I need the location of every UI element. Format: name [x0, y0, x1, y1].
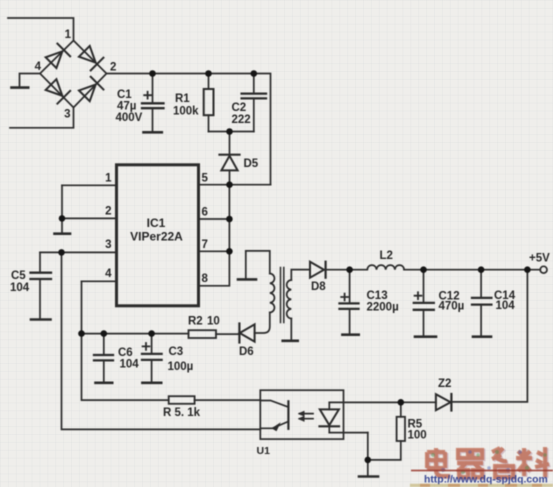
capacitor C12: [414, 270, 436, 337]
svg-text:470µ: 470µ: [439, 301, 465, 313]
diode D6: [239, 313, 269, 343]
wire pins1-2 to ground: [61, 185, 63, 233]
node C1 rail: [149, 70, 156, 77]
svg-text:3: 3: [64, 109, 70, 121]
svg-text:1: 1: [105, 173, 112, 185]
wire opto anode to R5 node: [329, 401, 401, 403]
optocoupler U1 box: [260, 390, 343, 439]
svg-text:L2: L2: [380, 250, 393, 262]
svg-text:R1: R1: [175, 93, 190, 105]
node pin6: [226, 216, 233, 223]
svg-text:1: 1: [65, 29, 72, 41]
wire main HV rail: [107, 74, 271, 185]
watermark 电器资料 (drawn strokes): [410, 447, 553, 486]
node pin5: [226, 181, 233, 188]
svg-text:C3: C3: [169, 346, 184, 358]
wire Vdd cap line: [82, 333, 189, 335]
svg-text:6: 6: [202, 207, 208, 219]
wire output down to Z2: [452, 270, 528, 402]
svg-text:8: 8: [202, 273, 209, 285]
ground G3 (primary top): [238, 278, 256, 281]
wire pin3: [40, 251, 117, 253]
svg-text:R 5. 1k: R 5. 1k: [163, 407, 201, 419]
wire pin1: [62, 184, 117, 186]
wire bridge node4 to ground: [20, 74, 41, 87]
svg-text:D6: D6: [239, 346, 254, 358]
node clamp D5 top: [226, 128, 233, 135]
svg-text:400V: 400V: [116, 112, 143, 124]
inductor L2: [350, 265, 405, 270]
wire pin4: [82, 280, 117, 282]
diode BR-d (3 to 2): [78, 77, 103, 102]
resistor R: [169, 396, 195, 404]
node pin4 Vdd: [78, 330, 85, 337]
opto phototransistor: [260, 401, 288, 431]
svg-text:222: 222: [232, 114, 251, 126]
wire pin4 down to Vdd line: [82, 281, 169, 400]
svg-text:C2: C2: [232, 102, 247, 114]
node R5 top: [398, 399, 405, 406]
svg-text:IC1: IC1: [147, 216, 166, 230]
wire feedback left rail (pin3 node down to opto emitter): [62, 252, 261, 429]
svg-text:+5V: +5V: [529, 253, 550, 265]
wire AC input top: [8, 18, 74, 41]
svg-text:D8: D8: [311, 281, 326, 293]
transformer T1 core: [281, 268, 284, 323]
ground G4 (secondary): [283, 339, 298, 342]
node R1 rail: [205, 70, 212, 77]
capacitor C2: [242, 74, 266, 132]
svg-text:4: 4: [105, 268, 112, 280]
svg-text:C6: C6: [118, 347, 133, 359]
capacitor C5: [31, 252, 52, 319]
wire opto cathode out: [329, 432, 368, 434]
svg-text:100: 100: [408, 430, 427, 442]
node +5V out: [524, 266, 531, 273]
diode BR-b (1 to 2): [78, 45, 103, 70]
svg-text:VIPer22A: VIPer22A: [130, 230, 183, 244]
wire secondary bottom: [290, 319, 292, 341]
node output terminal: [540, 266, 547, 273]
resistor R5: [368, 402, 405, 460]
capacitor C3: [142, 334, 162, 383]
svg-text:C13: C13: [367, 290, 388, 302]
capacitor C6: [94, 334, 113, 383]
opto light arrows: [298, 411, 313, 421]
wire output rail: [404, 269, 540, 271]
node C2 rail: [251, 70, 258, 77]
svg-text:D5: D5: [244, 158, 259, 170]
wire drain pin5 line: [199, 184, 271, 186]
wire clamp node (R1-C2 bottoms): [209, 131, 254, 133]
svg-text:104: 104: [10, 282, 30, 294]
svg-text:C1: C1: [117, 89, 132, 101]
svg-text:5: 5: [202, 173, 209, 185]
wire R2 to D6: [216, 333, 239, 335]
opto LED: [320, 402, 340, 432]
wire pin7 stub: [199, 250, 230, 252]
svg-text:47µ: 47µ: [117, 101, 136, 113]
svg-text:R2: R2: [188, 316, 203, 328]
transformer T1 secondary winding: [287, 280, 292, 319]
wire pin6 stub: [199, 218, 230, 220]
svg-text:100k: 100k: [173, 106, 199, 118]
diode BR-c (4 to 3): [45, 78, 70, 103]
node C6 top: [101, 330, 108, 337]
node pin3: [58, 249, 65, 256]
node C3 top: [148, 330, 155, 337]
diode BR-a (4 to 1): [45, 44, 70, 69]
svg-text:2200µ: 2200µ: [367, 302, 399, 314]
resistor R1: [204, 74, 214, 132]
svg-text:2: 2: [105, 206, 111, 218]
wire pin2: [62, 217, 117, 219]
capacitor C14: [472, 270, 491, 337]
capacitor C1: [142, 74, 164, 133]
wire staple left leg: [245, 251, 247, 278]
ground G5 (feedback): [359, 475, 378, 478]
svg-text:7: 7: [202, 239, 208, 251]
transformer T1 primary winding: [270, 274, 275, 313]
node R5 bottom gnd: [365, 457, 372, 464]
node C12: [420, 266, 427, 273]
svg-text:104: 104: [120, 359, 140, 371]
capacitor C13: [340, 270, 359, 335]
diode D5: [220, 132, 240, 185]
resistor R2: [189, 330, 217, 338]
diode Z2: [401, 394, 452, 411]
wire primary top staple: [246, 251, 270, 274]
svg-text:3: 3: [105, 239, 111, 251]
svg-text:C5: C5: [11, 270, 26, 282]
bridge diamond wires: [40, 41, 107, 108]
svg-text:Z2: Z2: [438, 378, 451, 390]
diode D8: [310, 262, 350, 278]
ground G1 (bridge): [12, 86, 29, 89]
svg-text:2: 2: [110, 62, 116, 74]
node pin7: [226, 248, 233, 255]
ground G2 (source pins): [55, 232, 71, 235]
node D8 C13: [346, 266, 353, 273]
svg-text:104: 104: [496, 300, 516, 312]
svg-text:10: 10: [207, 316, 220, 328]
svg-text:U1: U1: [257, 445, 271, 457]
svg-text:4: 4: [35, 61, 42, 73]
node pin2 gnd: [59, 215, 66, 222]
wire drain bus pins 5-8: [199, 185, 230, 286]
op-amp / IC U1 box: IC1 VIPer22A: [117, 165, 199, 306]
wire opto cathode to R5 ground node: [367, 433, 369, 476]
node C14: [478, 266, 485, 273]
wire secondary top to D8: [291, 270, 310, 280]
wire AC input bottom: [10, 108, 74, 128]
wire R to opto: [195, 399, 261, 401]
svg-text:100µ: 100µ: [168, 361, 194, 373]
